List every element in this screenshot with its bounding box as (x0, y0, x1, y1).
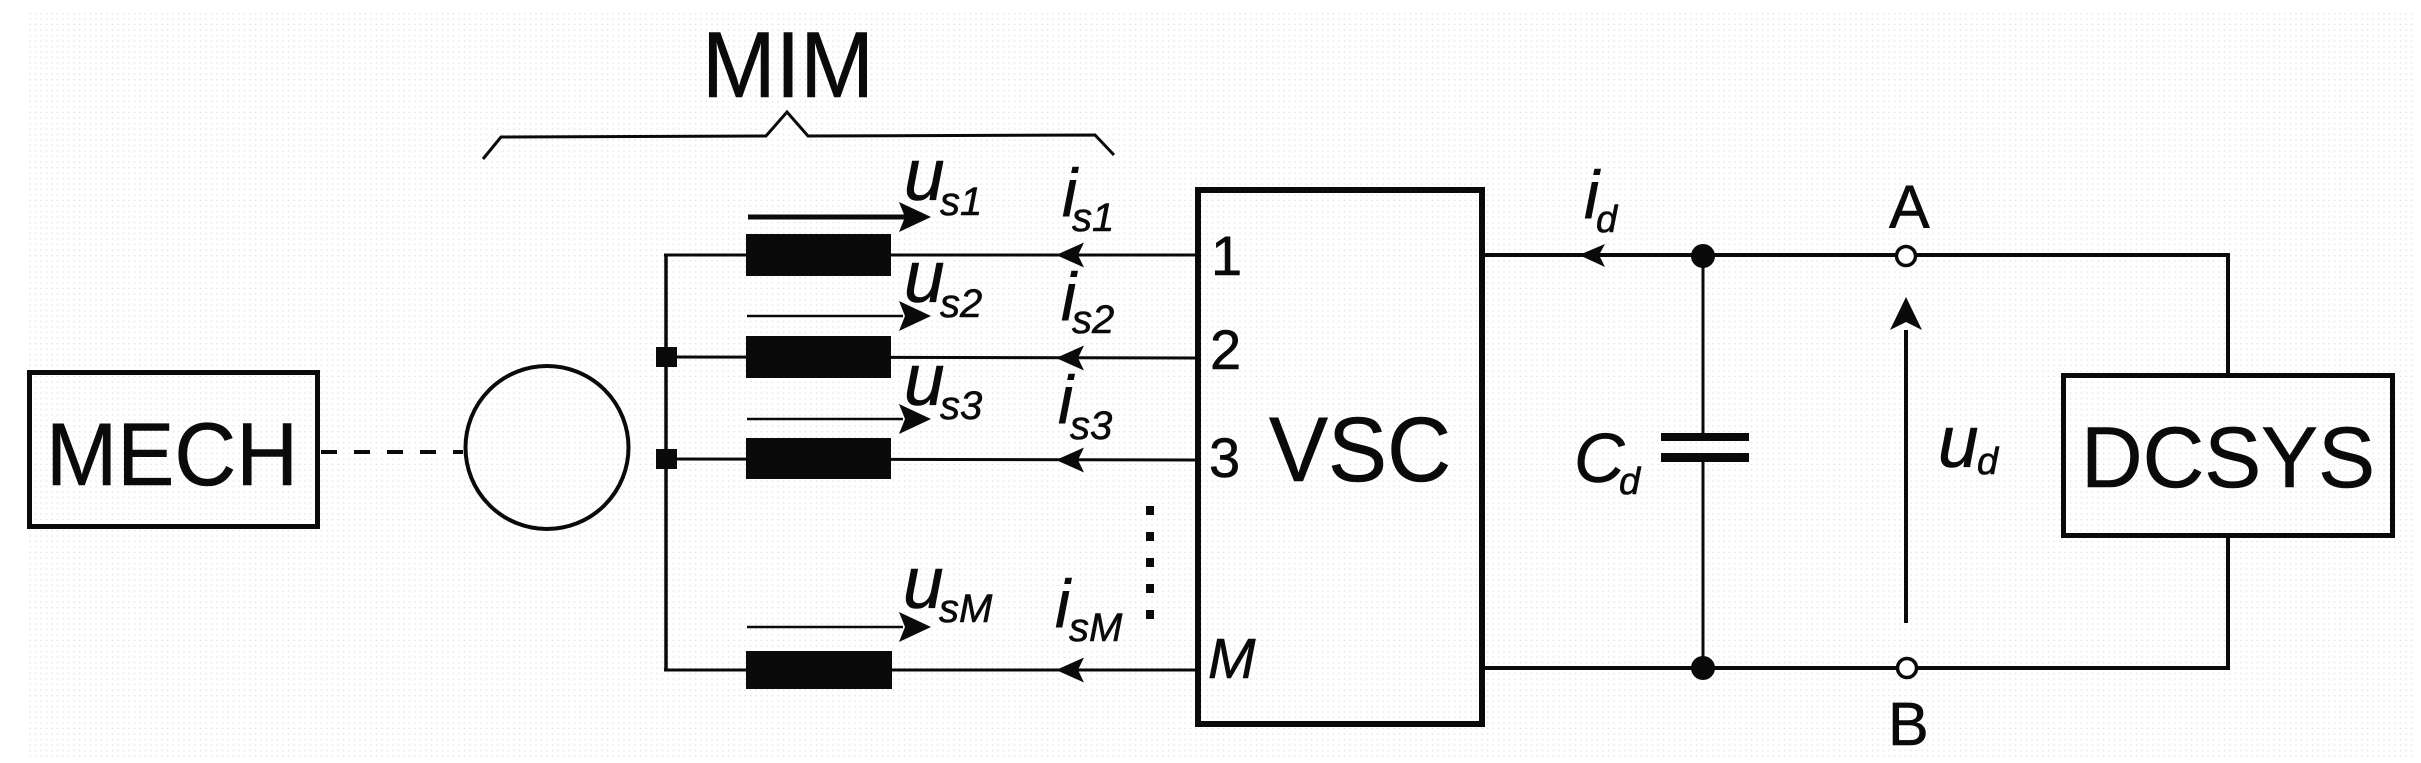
label u_d (1938, 402, 2000, 483)
junction dc top (1691, 244, 1715, 268)
label i_s2 (1061, 259, 1114, 342)
svg-text:d: d (1619, 461, 1642, 503)
arrow u_sM (747, 612, 931, 642)
svg-text:u: u (904, 237, 945, 318)
capacitor Cd (1661, 256, 1749, 668)
svg-text:u: u (904, 340, 945, 421)
winding M (746, 651, 892, 689)
label i_d (1584, 157, 1619, 241)
wire dc bottom right vertical (2226, 536, 2230, 670)
svg-text:1: 1 (1211, 224, 1242, 287)
arrowhead i_s3 (1056, 448, 1084, 473)
svg-text:2: 2 (1210, 318, 1241, 381)
node B (1898, 659, 1917, 678)
block MECH (30, 373, 318, 527)
label u_s1 (904, 135, 982, 224)
label u_s3 (904, 340, 982, 428)
arrowhead i_d (1579, 244, 1605, 267)
wire row 3 (666, 459, 1195, 460)
wire dc top (1485, 253, 2228, 257)
label u_s2 (904, 237, 982, 326)
block DCSYS (2064, 376, 2393, 536)
arrowhead i_s2 (1056, 346, 1084, 371)
wire row 1 (664, 254, 1195, 257)
wire dc top right vertical (2226, 253, 2230, 375)
svg-text:MIM: MIM (702, 12, 874, 117)
svg-text:s2: s2 (1072, 298, 1114, 342)
svg-text:3: 3 (1209, 426, 1240, 489)
svg-text:A: A (1889, 173, 1930, 241)
wire dc bottom (1485, 666, 2228, 670)
arrowhead i_sM (1056, 658, 1084, 683)
winding 1 (746, 234, 891, 276)
svg-text:d: d (1977, 441, 2000, 483)
wire dashed shaft MECH to machine (321, 450, 463, 454)
svg-text:DCSYS: DCSYS (2081, 410, 2375, 506)
svg-text:B: B (1888, 690, 1929, 758)
brace MIM (483, 112, 1114, 159)
label C_d (1574, 419, 1642, 503)
svg-text:C: C (1574, 419, 1625, 497)
label i_s3 (1058, 362, 1112, 448)
winding 3 (746, 438, 891, 479)
arrow u_s2 (747, 301, 931, 331)
svg-text:sM: sM (939, 587, 993, 631)
machine circle (466, 366, 629, 529)
arrow u_s1 (748, 202, 931, 232)
label i_s1 (1062, 155, 1114, 240)
svg-text:s3: s3 (1070, 404, 1112, 448)
svg-text:s1: s1 (1072, 196, 1114, 240)
ellipsis dots between row 3 and row M (1146, 506, 1154, 619)
wire row M (664, 669, 1195, 672)
svg-text:sM: sM (1069, 606, 1123, 650)
arrow u_s3 (747, 404, 931, 434)
svg-text:d: d (1596, 199, 1619, 241)
svg-text:s1: s1 (940, 180, 982, 224)
svg-text:u: u (1938, 402, 1979, 483)
svg-text:s2: s2 (940, 282, 982, 326)
wire row 2 (666, 357, 1195, 358)
label u_sM (903, 543, 993, 631)
junction bus row 3 (656, 449, 677, 469)
svg-text:s3: s3 (940, 384, 982, 428)
label i_sM (1055, 566, 1123, 650)
converter VSC box (1198, 190, 1482, 724)
svg-text:MECH: MECH (46, 404, 298, 504)
svg-text:u: u (903, 543, 944, 624)
junction bus row 2 (656, 347, 677, 367)
svg-text:M: M (1208, 627, 1256, 691)
svg-text:u: u (904, 135, 945, 216)
arrow u_d (1890, 297, 1922, 623)
svg-text:VSC: VSC (1269, 399, 1451, 501)
winding 2 (746, 336, 891, 378)
wire left bus (664, 255, 668, 670)
node A (1897, 247, 1916, 266)
arrowhead i_s1 (1056, 243, 1084, 268)
junction dc bottom (1691, 656, 1715, 680)
